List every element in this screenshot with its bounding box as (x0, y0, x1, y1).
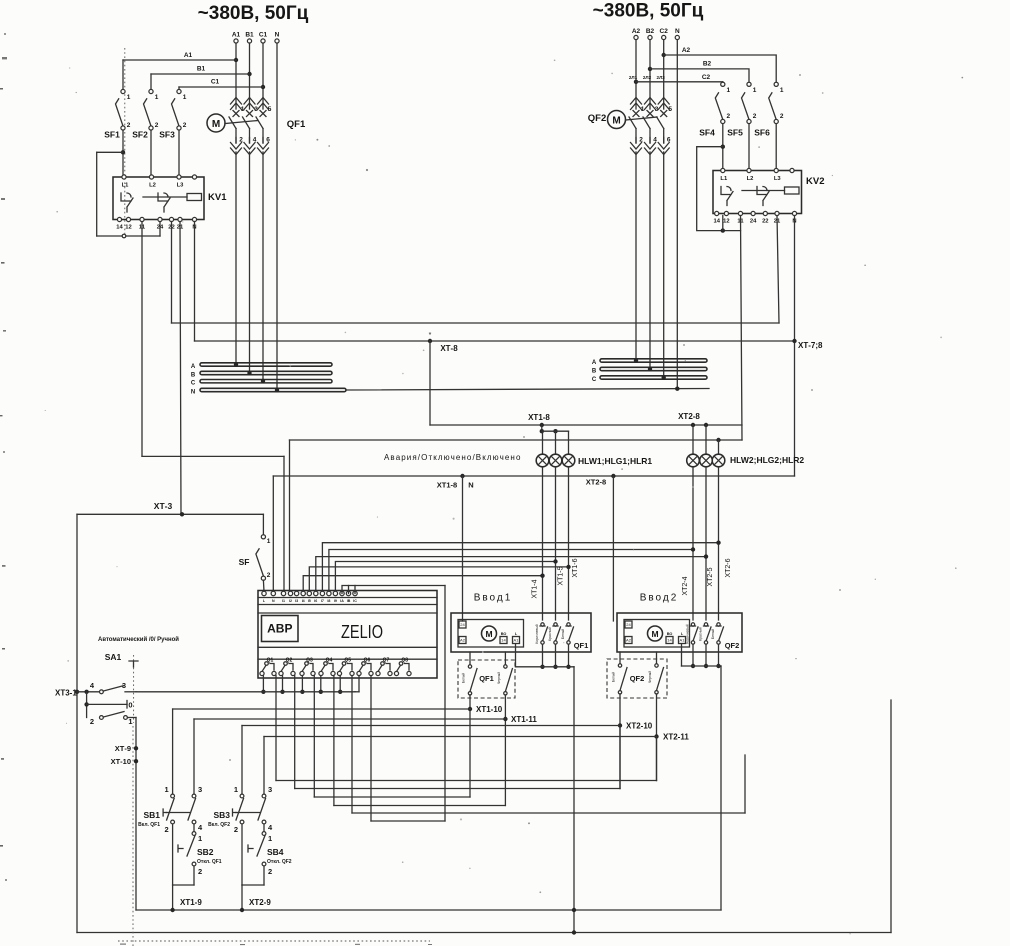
junction node XT1-9 (170, 908, 174, 912)
position contact QF1 aux b (504, 665, 513, 695)
svg-text:1: 1 (753, 87, 757, 94)
svg-text:ХТ2-5: ХТ2-5 (707, 567, 714, 586)
junction node lamp bridge 2 (553, 429, 557, 433)
wire tap C1 (179, 86, 263, 88)
terminal block Vvod2 24 (625, 621, 632, 628)
lamp HLW2 (687, 454, 700, 467)
wire KV2 terminal 11 column (741, 216, 743, 441)
wire SA1 pin3 out (125, 691, 136, 693)
terminal SB3 t4 (262, 820, 266, 824)
wire lamp feed line XT1-8/XT2-8 (430, 424, 742, 426)
wire KV1 terminal 22 column (171, 222, 173, 324)
wire pole 3 stub (249, 98, 251, 109)
junction node XT-7-8 (792, 339, 796, 343)
KV1 internal contact 1 (121, 193, 133, 212)
terminal SB1 t4 (192, 820, 196, 824)
junction node KV2 link (721, 228, 725, 232)
breaker pole 1 blade (629, 117, 636, 129)
breaker SF4 blade (715, 93, 723, 120)
wire KV1 feed left vertical (96, 152, 98, 236)
wire ZELIO output drop 263.4 (262, 676, 264, 692)
wire SA1 zero line (87, 703, 127, 705)
wire trip line QF1 b (334, 805, 506, 807)
terminal block 24 (459, 621, 466, 628)
terminal ZELIO input I8 (327, 591, 331, 595)
svg-text:L2: L2 (149, 183, 156, 189)
lamp HLW1 (536, 454, 549, 467)
junction node XT-9 (134, 746, 138, 750)
svg-text:14: 14 (667, 638, 672, 643)
svg-text:SF6: SF6 (754, 128, 770, 138)
wire aux contact drop 542.5 (542, 644, 544, 667)
relay contact Q8 (394, 662, 411, 676)
pushbutton SB2 blade (187, 836, 195, 857)
svg-text:I8: I8 (327, 599, 330, 603)
junction node output rail 282.5 (280, 690, 284, 694)
terminal SF4 pin1 (721, 82, 725, 86)
terminal SF pin1 (261, 535, 265, 539)
terminal SF3 pin1 (177, 89, 181, 93)
svg-text:SF3: SF3 (159, 130, 175, 140)
svg-text:А2: А2 (682, 47, 691, 54)
terminal ZELIO input L (262, 591, 266, 595)
svg-text:ХТ1-8: ХТ1-8 (437, 481, 457, 490)
junction node XT-10 (134, 759, 138, 763)
terminal SF2 pin2 (149, 126, 153, 130)
wire left border conductor (76, 514, 78, 932)
junction node XT2-6 input line (716, 541, 720, 545)
svg-text:ВО: ВО (667, 632, 673, 636)
svg-text:Белый: Белый (612, 672, 616, 682)
svg-text:I3: I3 (295, 599, 298, 603)
terminal ZELIO input I4 (301, 591, 305, 595)
QF drawout contact arrows pole 1 (231, 98, 242, 110)
pole 5 fixed contact X (260, 111, 266, 117)
wire SB4 lower lead (263, 866, 265, 885)
svg-text:В1: В1 (197, 66, 206, 73)
svg-text:Откл. QF1: Откл. QF1 (197, 859, 222, 865)
wire SA1 pin1 out (128, 717, 137, 719)
wire QF1 aux a drop (469, 695, 471, 797)
wire XT2-5 input line (316, 557, 706, 592)
wire phase C2 drop (663, 40, 665, 98)
KV2 coil (785, 187, 800, 194)
terminal KV1 top terminal (192, 175, 196, 179)
svg-text:А2: А2 (626, 638, 632, 643)
svg-text:24: 24 (626, 622, 631, 627)
Vvod1 drive box (458, 620, 524, 648)
svg-text:1: 1 (726, 87, 730, 94)
module ABP box (262, 616, 299, 642)
svg-text:SB3: SB3 (213, 810, 230, 820)
terminal ZELIO input I9 (333, 591, 337, 595)
svg-text:2: 2 (127, 122, 131, 129)
svg-text:N: N (468, 481, 473, 490)
enclosure boundary dash-dot upper (124, 48, 126, 236)
svg-text:ВО: ВО (501, 632, 507, 636)
svg-text:SF1: SF1 (104, 130, 120, 140)
wire tap A2 to SF6 (664, 55, 777, 82)
svg-text:В2: В2 (703, 61, 712, 68)
wire SB3 common link (242, 884, 264, 886)
wire SB3 pin1 feed (241, 726, 243, 795)
wire Vvod1 aux common bus (516, 666, 575, 668)
terminal KV2 top terminal L1 (721, 168, 725, 172)
wire QF2 b riser (656, 738, 658, 781)
lamp HLR1 (562, 454, 575, 467)
terminal block Vvod2 14 (666, 637, 673, 644)
pole 6 lower drawout arrows (258, 143, 269, 155)
unit Vvod2 box (617, 613, 742, 652)
junction node QF2-C bus (662, 375, 666, 379)
wire QF1 aux a upper link (469, 652, 471, 665)
wire ZELIO output drop 320.8 (320, 676, 322, 692)
svg-text:1: 1 (268, 834, 272, 843)
svg-text:SF5: SF5 (727, 128, 743, 138)
wire pole 5 stub (262, 98, 264, 109)
wire XT1-4 input line (303, 576, 542, 592)
wire SB1 common link (173, 884, 194, 886)
wire XT2-4 input line (329, 550, 693, 592)
svg-text:ХТ1-9: ХТ1-9 (180, 898, 202, 907)
svg-text:ZELIO: ZELIO (341, 622, 383, 642)
terminal ZELIO input I6 (314, 591, 318, 595)
terminal SF5 pin2 (747, 119, 751, 123)
terminal KV1 bottom terminal N (192, 217, 196, 221)
wire ZELIO output drop 340.2 (339, 676, 341, 692)
terminal ZELIO input I1 (281, 591, 285, 595)
svg-text:С1: С1 (259, 32, 268, 39)
wire SB1 pin1 feed (172, 709, 174, 794)
wire pole 1 mid stub (635, 129, 637, 144)
wire Vvod1 common drop (573, 667, 575, 933)
wire lamp HLR1 return / XT1-6 column (568, 467, 570, 620)
svg-text:L1: L1 (122, 183, 130, 189)
wire KV1-11 drop to ZELIO input (283, 456, 285, 591)
pushbutton SB4 actuator (248, 845, 253, 852)
wire lamp HLG2 return / XT2-5 column (705, 467, 707, 620)
terminal block А2 (459, 637, 466, 644)
svg-text:Ввод1: Ввод1 (474, 593, 513, 604)
junction node XT1-4 input line (540, 574, 544, 578)
terminal KV1 bottom terminal 11 (140, 217, 144, 221)
junction node SF4 branch (721, 145, 725, 149)
junction node KV1-21 to XT-3 (180, 512, 184, 516)
wire pole 6 lower stub (262, 138, 264, 144)
wire lamp HLG1 lead (555, 431, 557, 454)
wire line from KV2-11 to ZELIO (290, 439, 743, 441)
terminal KV2 bottom terminal 12 (724, 211, 728, 215)
terminal SF3 pin2 (177, 126, 181, 130)
terminal SB4 t2 (262, 862, 266, 866)
terminal KV1 bottom terminal 12 (126, 217, 130, 221)
pushbutton SB1 actuator (166, 812, 190, 814)
wire pole 4 lower stub (649, 138, 651, 144)
wire tap B2 to SF5 (650, 69, 749, 82)
wire trip line QF2 b (276, 780, 657, 782)
junction node XT1-6 input line (566, 565, 570, 569)
wire lamp HLW2 return / XT2-4 column (692, 467, 694, 620)
svg-text:1: 1 (780, 87, 784, 94)
wire SB1 lower column (172, 824, 174, 885)
wire XT-3 line (77, 513, 263, 515)
svg-text:22: 22 (762, 219, 768, 225)
svg-text:Откл. QF2: Откл. QF2 (267, 859, 292, 865)
wire QF2 aux a drop (619, 694, 621, 789)
wire KV2 coil link (742, 190, 785, 192)
wire pole 1 mid stub (235, 129, 237, 144)
junction node XT3-1 (75, 690, 79, 694)
ZELIO inner line 1 (258, 597, 437, 599)
junction node SF1-KV1 tap (121, 150, 125, 154)
terminal KV1 bottom terminal 22 (169, 217, 173, 221)
terminal SB3 t3 (262, 794, 266, 798)
junction node XT2-4 input line (691, 547, 695, 551)
wire spare control line drop (351, 676, 353, 814)
wire feeder control line drop (370, 676, 372, 822)
svg-text:I4: I4 (302, 599, 305, 603)
terminal KV2 top terminal L3 (774, 168, 778, 172)
pushbutton SB4 blade (257, 836, 265, 857)
svg-text:1: 1 (234, 785, 238, 794)
wire XT2-11 line (264, 736, 657, 738)
svg-text:14: 14 (501, 638, 506, 643)
wire phase B2 drop (649, 40, 651, 98)
svg-text:ХТ2-11: ХТ2-11 (663, 733, 689, 742)
terminal input В1 (247, 39, 251, 43)
terminal SF6 pin1 (774, 82, 778, 86)
svg-text:1: 1 (128, 717, 132, 726)
svg-text:24: 24 (460, 622, 465, 627)
junction node output rail 263.4 (261, 690, 265, 694)
wire lamp HLR1 lead (568, 431, 570, 454)
svg-text:2: 2 (726, 113, 730, 120)
wire pole 1 stub (235, 98, 237, 109)
wire QF1 out A to bus (235, 152, 237, 365)
ZELIO inner line 4 (258, 646, 437, 648)
wire SB1 pin3 feed (193, 719, 195, 794)
wire neutral bus line (346, 389, 709, 391)
svg-text:А1: А1 (680, 638, 686, 643)
svg-text:N: N (675, 28, 680, 35)
QF drawout contact arrows pole 5 (258, 98, 269, 110)
wire neutral N left column (276, 43, 278, 390)
wire XT1-10 line (173, 708, 470, 710)
svg-text:1: 1 (183, 94, 187, 101)
pole 4 lower drawout arrows (244, 143, 255, 155)
scan speck marks field (229, 74, 841, 761)
SA1 zero tick (126, 701, 128, 709)
QF drawout contact arrows pole 3 (645, 98, 656, 110)
terminal input С2 (662, 35, 666, 39)
terminal input А1 (234, 39, 238, 43)
terminal SB3 t2 (240, 820, 244, 824)
wire aux contact drop 693 (692, 644, 694, 666)
wire control rail from SA1-3 (136, 691, 355, 693)
KV2 internal contact 1 (721, 187, 733, 206)
svg-text:I5: I5 (308, 599, 311, 603)
wire KV1-22 to KV2-21 link (172, 322, 780, 324)
svg-text:А1: А1 (184, 52, 193, 59)
junction node N right bus (675, 387, 679, 391)
wire N drop to Vvod1 (462, 476, 464, 621)
svg-text:ХТ-8: ХТ-8 (440, 344, 458, 353)
junction node Vvod1 common bottom (572, 930, 576, 934)
svg-text:QF1: QF1 (574, 641, 589, 650)
svg-text:С: С (592, 377, 597, 383)
pole 1 fixed contact X (633, 111, 639, 117)
junction node QF1-A bus (234, 362, 238, 366)
wire Vvod2 motor L link (681, 644, 683, 666)
terminal KV2 bottom terminal 11 (738, 211, 742, 215)
pole 6 lower drawout arrows (658, 143, 669, 155)
wire right return riser (890, 700, 892, 933)
svg-text:2: 2 (183, 122, 187, 129)
svg-text:Вкл. QF2: Вкл. QF2 (208, 822, 230, 828)
ZELIO inner line 5 (258, 658, 437, 660)
wire KV1 feed left top (97, 151, 123, 153)
junction node QF1-C bus (261, 379, 265, 383)
wire phase C1 drop (262, 43, 264, 98)
breaker SF1 blade (116, 99, 124, 126)
terminal SF6 pin2 (774, 119, 778, 123)
svg-text:Коричневый: Коричневый (535, 624, 539, 643)
wire pole 3 mid stub (649, 129, 651, 144)
busbar N (200, 388, 346, 391)
wire spare control riser (744, 755, 746, 813)
junction node aux common 555.5 (553, 665, 557, 669)
QF drawout contact arrows pole 1 (631, 98, 642, 110)
svg-text:QF2: QF2 (588, 113, 606, 124)
svg-text:1: 1 (165, 785, 169, 794)
breaker SF3 blade (172, 99, 180, 126)
wire tap A1 (123, 59, 236, 61)
wire trip line QF2 a (295, 788, 620, 790)
wire KV2 feed loop (697, 147, 741, 231)
wire tap C2 to SF4 (636, 81, 723, 83)
terminal ZELIO input IA (340, 591, 344, 595)
svg-text:N: N (272, 599, 275, 603)
motor Vvod2 M (648, 626, 663, 641)
wire tap B1 (151, 73, 250, 75)
svg-text:ХТ2-4: ХТ2-4 (682, 576, 689, 595)
pushbutton SB1 blade 1 (167, 799, 175, 821)
breaker pole 5 blade (256, 117, 263, 129)
wire ZELIO output drop 302.4 (301, 676, 303, 692)
junction node lamp3 right tap (716, 438, 720, 442)
svg-text:M: M (612, 116, 620, 127)
wire spare control line (352, 812, 745, 814)
svg-text:ХТ2-6: ХТ2-6 (725, 558, 732, 577)
svg-text:SB4: SB4 (267, 847, 284, 857)
junction node XT2-9 (240, 908, 244, 912)
junction node XT2-10 (618, 723, 622, 727)
wire SF3 lower lead (178, 130, 180, 177)
svg-text:SB1: SB1 (143, 810, 160, 820)
svg-text:*: * (429, 332, 432, 339)
svg-text:QF1: QF1 (287, 119, 306, 130)
motor drive QF2 M (608, 111, 626, 129)
wire KV1 terminal 11 column (141, 222, 143, 457)
wire KV2-11 line drop to ZELIO input (289, 440, 291, 592)
terminal ZELIO input IC (353, 591, 357, 595)
wire neutral N right column (676, 40, 678, 389)
svg-text:Белый: Белый (462, 673, 466, 683)
terminal SB1 t2 (171, 820, 175, 824)
svg-text:2: 2 (753, 113, 757, 120)
junction node B2 tap (648, 67, 652, 71)
position contact QF1 aux a (468, 665, 477, 695)
pole 3 fixed contact X (247, 111, 253, 117)
wire SF4 to KV2 L1 (722, 124, 724, 171)
svg-text:ХТ1-11: ХТ1-11 (511, 715, 537, 724)
busbar C left (200, 380, 332, 383)
junction node aux common 2 706 (704, 664, 708, 668)
relay KV1 box (113, 177, 204, 220)
wire pole 5 stub (663, 98, 665, 109)
svg-text:24: 24 (750, 219, 757, 225)
svg-text:С2: С2 (702, 74, 711, 81)
svg-text:2: 2 (268, 867, 272, 876)
wire pole 5 mid stub (262, 129, 264, 144)
breaker SF5 blade (742, 93, 750, 120)
svg-text:2: 2 (90, 717, 94, 726)
wire pole 6 lower stub (663, 138, 665, 144)
junction node QF1-B bus (247, 371, 251, 375)
svg-text:12: 12 (125, 225, 131, 231)
controller ZELIO outer box (258, 591, 437, 679)
terminal KV2 bottom terminal N (792, 211, 796, 215)
pole 4 lower drawout arrows (645, 143, 656, 155)
relay contact Q1 (260, 662, 276, 676)
wire SA1 lower column (135, 718, 137, 911)
wire feeder right vertical (444, 586, 446, 822)
boundary bottom dashed (118, 940, 430, 942)
terminal block Vvod2 А2 (625, 637, 632, 644)
svg-text:M: M (651, 629, 658, 639)
svg-text:2: 2 (165, 825, 169, 834)
busbar C right (600, 376, 707, 379)
aux contact QF2 Красный (704, 623, 712, 644)
svg-text:А2: А2 (460, 638, 466, 643)
wire lamp HLW2 lead (692, 425, 694, 453)
terminal KV1 top terminal L2 (149, 175, 153, 179)
pole 5 fixed contact X (661, 111, 667, 117)
pushbutton SB2 actuator (178, 845, 183, 852)
wire pushbutton common rail (136, 909, 721, 911)
junction node A1 tap (234, 58, 238, 62)
terminal KV2 top terminal (790, 168, 794, 172)
svg-text:АВР: АВР (267, 622, 292, 636)
terminal input N (675, 35, 679, 39)
pole 3 fixed contact X (647, 111, 653, 117)
svg-text:ХТ-10: ХТ-10 (111, 757, 131, 766)
junction node XT2-11 (654, 734, 658, 738)
svg-text:1: 1 (267, 538, 271, 545)
relay contact Q3 (300, 662, 315, 676)
terminal SF5 pin1 (747, 82, 751, 86)
wire pole 5 mid stub (663, 129, 665, 144)
wire lamp HLW1 lead (542, 431, 544, 454)
svg-text:IC: IC (353, 599, 357, 603)
wire trip line QF2 a drop (294, 676, 296, 789)
junction node XT2-5 input line (704, 554, 708, 558)
svg-text:ХТ1-5: ХТ1-5 (558, 566, 565, 585)
junction node output rail 340.2 (338, 690, 342, 694)
wire XT1-6 input line (309, 567, 568, 592)
svg-text:SA1: SA1 (105, 652, 122, 662)
relay KV2 box (713, 171, 802, 214)
